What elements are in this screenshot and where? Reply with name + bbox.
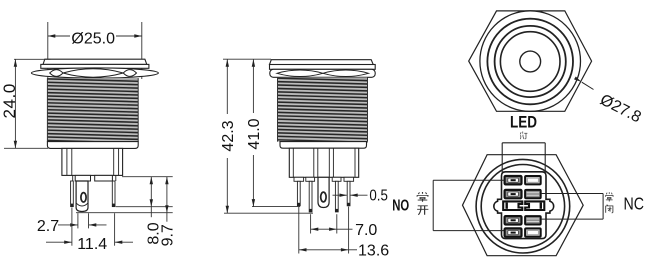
svg-text:11.4: 11.4: [77, 236, 107, 253]
pin base right: [95, 175, 113, 181]
fig3 circle 3: [495, 26, 566, 97]
dimension 13.6 line: [299, 249, 349, 251]
flange right facet: [123, 70, 136, 77]
fig4 hex body: [463, 155, 584, 256]
extension pin bottom 8.0: [116, 206, 173, 208]
lower housing: [62, 148, 123, 175]
fig2 lower housing: [289, 148, 358, 177]
button head top plate: [43, 59, 147, 64]
dimension 9.7 line: [166, 177, 168, 222]
fig2 pin bases: [294, 177, 304, 181]
svg-text:Ø25.0: Ø25.0: [71, 30, 115, 47]
fig4 terminal R2 left: [505, 190, 522, 198]
svg-text:2.7: 2.7: [37, 218, 59, 235]
fig2 pin A: [297, 181, 300, 206]
fig4 terminal block outline: [494, 172, 554, 239]
extension pinA bottom (41.0): [252, 206, 300, 208]
fig2 top extension line: [223, 58, 271, 60]
svg-text:7.0: 7.0: [355, 222, 377, 239]
fig2 lamp terminal with hole: [318, 177, 329, 207]
fig3 hex nut: [469, 11, 592, 111]
button head lip: [41, 64, 149, 68]
lamp terminal (wide pin with hole): [76, 181, 88, 212]
dimension 0.5 arrows at pin D: [333, 194, 347, 196]
pin base left: [75, 175, 90, 181]
NC bracket lines: [541, 193, 603, 195]
fig4 terminal R1 left (NO socket): [505, 176, 522, 184]
dimension Ø27.8 leader: [582, 82, 594, 89]
label lamp (deng) glyph: [520, 132, 527, 140]
extension lines 13.6: [298, 207, 300, 254]
fig2 thread collar: [280, 142, 367, 149]
dimension Ø25.0 extension line left: [47, 22, 49, 79]
dimension 24.0 bottom extension: [4, 147, 48, 149]
svg-text:13.6: 13.6: [358, 243, 389, 260]
fig4 terminal R2 right (NC): [525, 190, 541, 198]
pin terminal right: [112, 181, 115, 207]
lamp terminal hole: [81, 193, 86, 202]
label chang-bi (normally closed): [605, 192, 613, 201]
pin terminal left: [71, 181, 74, 207]
fig2 head lip: [270, 65, 376, 70]
NO bracket lines: [433, 179, 504, 181]
dimension 11.4 line and arrows: [46, 241, 72, 243]
fig3 circle 4: [500, 32, 560, 92]
dimension 8.0 line: [150, 177, 152, 218]
housing shade lines: [66, 148, 68, 175]
fig2 pin C: [335, 181, 338, 212]
fig4 circle outer: [476, 159, 570, 253]
extension lines 7.0: [310, 214, 312, 233]
extension housing bottom: [122, 176, 173, 178]
thread collar: [47, 142, 138, 149]
fig4 middle contact left: [503, 201, 522, 210]
svg-text:LED: LED: [510, 114, 537, 132]
fig4 circle inner: [481, 165, 564, 248]
extension pinB bottom (42.3): [224, 212, 313, 214]
label chang-kai (normally open): [417, 192, 428, 202]
dimension 41.0 line: [252, 59, 254, 113]
dimension Ø25.0 extension line right: [141, 22, 143, 79]
fig3 LED circle: [520, 51, 541, 72]
fig4 terminal R5 left (NO socket): [505, 228, 522, 236]
svg-text:42.3: 42.3: [220, 120, 237, 151]
base edge lines: [72, 175, 74, 181]
fig2 threaded body: [278, 77, 368, 141]
fig3 circle 2: [487, 19, 573, 105]
fig2 flange band: [270, 69, 375, 77]
svg-text:9.7: 9.7: [160, 224, 177, 246]
fig2 pin B: [309, 181, 312, 212]
fig2 flange left lens: [277, 70, 323, 77]
fig2 center channel: [313, 148, 315, 177]
svg-text:24.0: 24.0: [0, 83, 19, 119]
dimension 7.0 line: [311, 228, 337, 230]
fig4 terminal R4 right (NC): [525, 216, 541, 224]
flange left facet: [50, 70, 63, 77]
svg-text:41.0: 41.0: [246, 118, 263, 149]
svg-text:NO: NO: [392, 198, 409, 215]
dimension 24.0 top extension: [14, 58, 51, 60]
fig4 middle contact right: [525, 201, 544, 210]
extension lines 2.7: [77, 213, 79, 228]
lamp terminal bracket: [502, 142, 545, 144]
fig2 flange right lens: [323, 70, 369, 77]
fig3 bezel circle outer: [480, 11, 581, 112]
dimension 2.7 leader and arrows: [58, 224, 78, 226]
threaded body: [47, 78, 138, 142]
fig4 terminal R5 right: [525, 228, 541, 236]
button flange ellipse: [31, 68, 158, 78]
svg-text:NC: NC: [623, 194, 644, 214]
flange center lens: [63, 69, 123, 77]
fig2 head top plate: [270, 60, 374, 65]
dimension Ø25.0 line and arrows: [48, 35, 70, 37]
extension lamp pin bottom 9.7: [76, 212, 173, 214]
fig2 pin D: [347, 181, 350, 206]
fig4 terminal R4 left: [505, 216, 522, 224]
dimension 24.0 line: [14, 59, 16, 148]
extension lines 11.4: [71, 208, 73, 246]
fig4 terminal R1 right: [525, 176, 541, 184]
dimension 42.3 line: [226, 59, 228, 114]
svg-text:0.5: 0.5: [369, 188, 388, 205]
fig2 housing shade lines: [292, 148, 294, 177]
